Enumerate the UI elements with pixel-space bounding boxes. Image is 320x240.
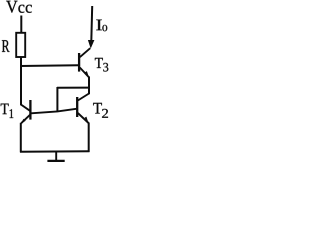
resistor R value label [2, 40, 10, 52]
transistor T1 [21, 100, 31, 123]
wire T2 base-collector tie horizontal [57, 87, 90, 89]
transistor T3 label [95, 58, 108, 72]
transistor T2 label [93, 103, 108, 118]
wire T1 emitter to ground rail [20, 123, 22, 153]
resistor R [16, 33, 25, 57]
output current I0 arrow [88, 6, 95, 49]
wire Vcc to resistor R [20, 16, 22, 34]
ground rail wire [20, 150, 90, 153]
transistor T2 [77, 94, 89, 124]
ground [47, 152, 64, 161]
wire node to T3 base [20, 64, 78, 67]
transistor T1 label [1, 104, 14, 118]
transistor T3 [79, 48, 90, 77]
wire T1 base to T2 base [31, 109, 76, 114]
current label I0 [96, 20, 107, 32]
Vcc supply label [6, 1, 32, 13]
wire T3 emitter to T2 collector [88, 77, 90, 95]
wire T2 emitter to ground rail [88, 123, 90, 153]
wire resistor bottom to T1 collector [20, 57, 22, 105]
wire T2 base-collector tie vertical [56, 87, 58, 112]
